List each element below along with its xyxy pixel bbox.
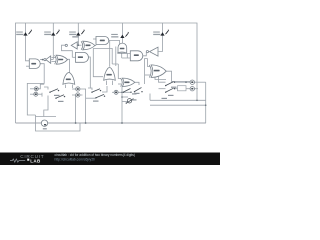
svg-text:LAB: LAB (30, 158, 41, 163)
svg-text:http://circuitlab.com/c6jvy2t/: http://circuitlab.com/c6jvy2t/ (55, 157, 96, 161)
